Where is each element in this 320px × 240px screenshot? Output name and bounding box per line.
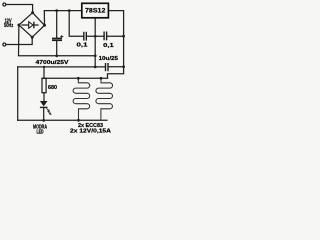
wire cap C3 to output line — [107, 35, 124, 37]
wire DC+ from bridge right corner up to +rail — [44, 11, 82, 26]
svg-text:50Hz: 50Hz — [4, 23, 14, 29]
node +rail C2 branch — [68, 9, 71, 12]
node +rail C1 — [55, 9, 58, 12]
node load rail resistor — [43, 66, 45, 68]
svg-text:680: 680 — [48, 85, 57, 91]
node bridge bottom — [31, 36, 34, 39]
capacitor C4 10u/25 plates — [106, 63, 109, 71]
wire +12V jog to heater bus — [108, 67, 124, 79]
node load rail gnd pin — [94, 66, 97, 69]
node cap wire / gnd pin — [94, 35, 97, 38]
node bottom rail LED — [42, 119, 45, 122]
junction dots — [17, 9, 125, 122]
heater H2 meander — [96, 78, 113, 120]
svg-text:LED: LED — [37, 130, 44, 136]
capacitor C2 0,1 plates — [84, 32, 87, 41]
heater H1 meander — [73, 78, 90, 120]
node bridge top — [31, 11, 34, 14]
wire 0,1 caps branch — [69, 11, 83, 37]
wire DC- from bridge left corner to ground rail — [19, 25, 96, 56]
load bottom rail — [18, 119, 107, 121]
capacitor C1 4700u/25V plates — [52, 38, 62, 40]
node gnd rail end — [94, 54, 97, 57]
wire between cap C2 and C3 — [87, 35, 104, 37]
svg-text:78S12: 78S12 — [85, 8, 106, 15]
node heater bus H1 — [77, 77, 80, 80]
LED D1 triangle — [40, 101, 48, 106]
node heater bus H2 — [100, 77, 103, 80]
heater bus — [42, 77, 108, 79]
svg-text:0,1: 0,1 — [103, 43, 114, 49]
node bridge right — [43, 24, 46, 27]
resistor R1 body — [42, 78, 46, 92]
terminal T1 (AC input top) — [3, 3, 6, 6]
node gnd rail C1 — [55, 54, 58, 57]
capacitor C3 0,1 plates — [104, 32, 107, 41]
wire 4700u cap branch — [56, 11, 58, 38]
node output corner — [122, 65, 125, 68]
diode cathode bar — [33, 22, 35, 29]
capacitor C1 polarity + — [60, 35, 63, 38]
svg-text:0,1: 0,1 — [77, 43, 88, 49]
load top rail (+12V side) — [108, 66, 123, 68]
resistor R1 top lead — [43, 67, 45, 79]
terminal T2 (AC input bottom) — [3, 43, 6, 46]
regulator output wire — [108, 11, 123, 67]
LED D1 cathode bar — [40, 106, 48, 108]
diode inside bridge — [22, 24, 38, 26]
load top rail (ground side) — [18, 66, 105, 68]
resistor R1 bottom lead — [43, 93, 45, 101]
LED D1 cathode lead — [43, 108, 45, 120]
node bridge left — [17, 24, 20, 27]
regulator U1 78S12 box — [82, 3, 109, 17]
diode triangle inside bridge — [29, 22, 33, 29]
node bottom rail H1 — [77, 119, 80, 122]
svg-text:4700u/25V: 4700u/25V — [36, 60, 70, 66]
LED D1 emission arrows — [46, 108, 51, 114]
regulator ground pin wire — [94, 18, 96, 67]
node cap wire / output — [122, 35, 125, 38]
wire T1 to bridge top — [6, 5, 32, 13]
bridge rectifier B1 diamond — [19, 13, 45, 38]
svg-text:2x 12V/0,15A: 2x 12V/0,15A — [70, 128, 111, 134]
load box left edge wire — [17, 67, 19, 120]
svg-text:10u/25: 10u/25 — [99, 56, 118, 62]
wire T2 to bridge bottom — [6, 37, 32, 44]
